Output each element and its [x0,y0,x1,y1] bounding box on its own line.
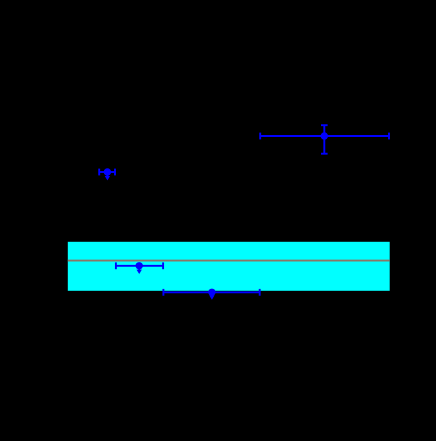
confidence band (cyan rectangle) [68,242,390,291]
data point 3 error bar horizontal [116,262,163,269]
data point 4 error bar horizontal [163,289,259,296]
data point 4 down arrow (upper limit) [209,292,214,299]
data point 2 error bar vertical [321,125,328,154]
data point 1 marker [104,168,111,175]
best-fit line (gray) [68,260,390,262]
data point 4 marker [208,289,215,296]
data point 1 down arrow (upper limit) [105,172,110,180]
data point 1 error bar horizontal [99,169,115,176]
data point 2 marker [321,132,328,139]
data point 2 error bar horizontal [260,133,389,140]
data point 3 marker [136,262,143,269]
data point 3 down arrow (upper limit) [137,266,142,274]
